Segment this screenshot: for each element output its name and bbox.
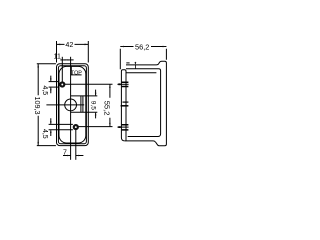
front view lens outline <box>59 66 86 143</box>
side view boss3 <box>122 125 129 130</box>
svg-text:4,5: 4,5 <box>41 129 48 139</box>
svg-text:109,3: 109,3 <box>33 97 42 115</box>
dim 7 arrows <box>67 155 70 157</box>
dim 56,2 line <box>120 46 166 48</box>
side view plate bottom corner <box>121 138 124 141</box>
reflector window right edge outer <box>82 96 84 112</box>
dim 42 extension lines <box>57 41 89 63</box>
reflector window right edge inner <box>80 96 82 112</box>
hole1 tangent extension bottom <box>49 86 60 88</box>
reflector window bottom edge <box>71 111 98 113</box>
side view panel edge stub <box>126 62 129 64</box>
side view housing inner line <box>126 72 156 74</box>
dim 109,3 extension lines <box>37 64 56 146</box>
svg-text:TOP: TOP <box>71 70 82 76</box>
lens circle <box>65 99 77 111</box>
dim 42 arrows <box>57 44 61 46</box>
hole1 tangent extension top <box>49 81 60 83</box>
center line vertical through hole1 <box>61 57 63 85</box>
TOP label box <box>71 67 81 75</box>
mounting hole2 <box>73 124 79 130</box>
dim 7 line <box>63 155 83 157</box>
dim 109,3 line <box>37 64 39 146</box>
svg-text:4,5: 4,5 <box>41 85 48 95</box>
side view mounting plate <box>121 70 126 141</box>
dim 11 line <box>60 59 73 61</box>
svg-text:55,2: 55,2 <box>103 101 112 116</box>
side view panel arrow <box>134 62 136 69</box>
svg-text:7: 7 <box>63 149 67 156</box>
dim 9,5 arrows <box>95 90 97 119</box>
dim 4,5 bottom arrows <box>50 118 52 136</box>
front view outer housing outline <box>57 64 89 146</box>
side view boss1 <box>122 82 129 86</box>
svg-text:56,2: 56,2 <box>135 42 149 51</box>
front view second outline <box>58 66 86 144</box>
center line vertical through hole2 <box>75 124 77 160</box>
dim 42 line <box>57 43 89 45</box>
hole2 tangent extension top <box>49 123 73 125</box>
hole2 tangent extension bottom <box>49 129 73 131</box>
center line horizontal hole1 <box>62 83 112 85</box>
dim 56,2 arrows <box>120 46 124 48</box>
side view inner lens contour <box>126 69 161 137</box>
side view outer contour top arm and right edge and bottom arm <box>125 61 167 146</box>
side view boss2 <box>123 101 129 103</box>
svg-text:9,5: 9,5 <box>89 101 96 110</box>
center line horizontal lens circle <box>46 104 84 106</box>
dim 4,5 top arrows <box>50 76 52 94</box>
svg-text:42: 42 <box>65 40 73 49</box>
dim 11 arrows <box>62 59 65 60</box>
reflector window top edge <box>71 95 98 97</box>
dim 55,2 arrows <box>109 84 111 88</box>
mounting hole1 <box>59 81 65 87</box>
dim 109,3 arrows <box>37 64 39 68</box>
center line vertical through lens circle <box>70 57 72 160</box>
dim 56,2 extension lines <box>120 49 166 70</box>
svg-text:11: 11 <box>54 53 61 60</box>
dim 55,2 line <box>109 84 111 126</box>
center line horizontal hole2 <box>76 126 113 128</box>
